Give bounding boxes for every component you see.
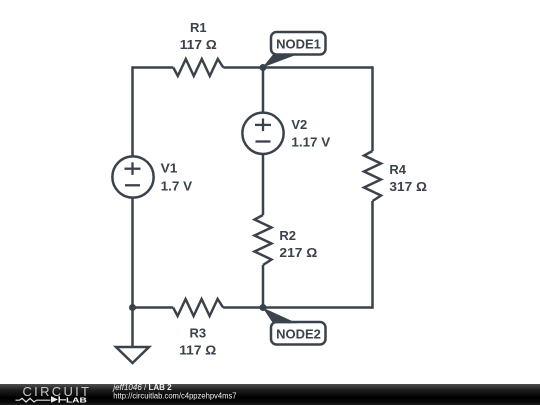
svg-text:http://circuitlab.com/c4ppzehp: http://circuitlab.com/c4ppzehpv4ms7 [113,391,237,400]
svg-text:317 Ω: 317 Ω [389,179,427,194]
svg-text:R1: R1 [190,20,207,35]
svg-text:117 Ω: 117 Ω [179,342,216,357]
svg-text:NODE2: NODE2 [276,327,321,342]
svg-text:V1: V1 [161,160,178,175]
svg-text:1.7 V: 1.7 V [161,179,193,194]
svg-text:V2: V2 [291,117,307,132]
svg-text:LAB: LAB [66,397,87,404]
svg-text:1.17 V: 1.17 V [291,135,330,150]
svg-text:217 Ω: 217 Ω [279,245,317,260]
svg-text:117 Ω: 117 Ω [180,37,217,52]
svg-text:R4: R4 [389,162,406,177]
svg-text:R3: R3 [189,325,206,340]
svg-text:NODE1: NODE1 [276,37,321,52]
svg-text:R2: R2 [279,228,296,243]
